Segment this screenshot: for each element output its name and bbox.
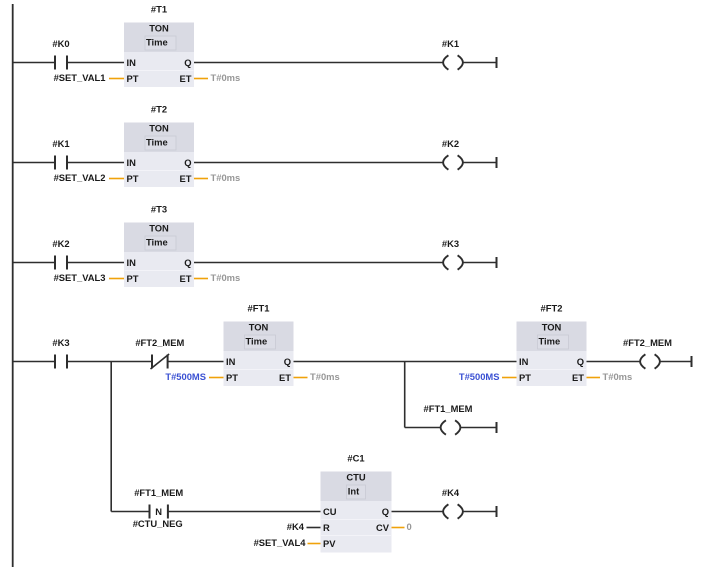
svg-text:TON: TON bbox=[542, 322, 562, 333]
svg-text:Q: Q bbox=[382, 506, 389, 517]
wire #T1.Q to coil #K1 bbox=[194, 62, 443, 64]
rung 2 end tick bbox=[496, 157, 498, 168]
branch end tick bbox=[496, 422, 498, 433]
wire #SET_VAL4 to #C1.PV bbox=[308, 543, 321, 545]
wire contact to #C1.CU bbox=[168, 511, 321, 513]
timer block #T3 (TON Time) bbox=[124, 204, 194, 288]
wire #T3.ET stub bbox=[194, 278, 208, 280]
counter block #C1 (CTU Int) bbox=[321, 453, 392, 553]
contact #FT1_MEM (N negative edge), operand #CTU_NEG bbox=[133, 487, 184, 529]
svg-text:T#500MS: T#500MS bbox=[459, 371, 500, 382]
svg-text:T#0ms: T#0ms bbox=[310, 371, 340, 382]
svg-text:PT: PT bbox=[226, 372, 238, 383]
wire rail to contact #K1 bbox=[13, 162, 55, 164]
svg-text:#K3: #K3 bbox=[52, 337, 69, 348]
wire contact #K1 to #T2 IN bbox=[67, 162, 124, 164]
contact #K1 (NO) bbox=[52, 138, 69, 169]
svg-text:R: R bbox=[323, 522, 330, 533]
svg-text:#K2: #K2 bbox=[52, 238, 69, 249]
wire #T2.Q to coil #K2 bbox=[194, 162, 443, 164]
svg-text:#C1: #C1 bbox=[347, 453, 364, 464]
coil #K1 bbox=[442, 38, 463, 69]
wire #FT2.Q to coil #FT2_MEM bbox=[587, 361, 640, 363]
svg-text:Time: Time bbox=[146, 37, 168, 48]
svg-text:IN: IN bbox=[127, 257, 137, 268]
svg-text:Time: Time bbox=[146, 237, 168, 248]
svg-text:PT: PT bbox=[127, 173, 139, 184]
rung 4 end tick bbox=[691, 356, 693, 367]
svg-text:ET: ET bbox=[180, 273, 192, 284]
wire #SET_VAL1 to #T1.PT bbox=[109, 78, 124, 80]
wire #FT1.ET stub bbox=[294, 377, 308, 379]
svg-text:#T2: #T2 bbox=[151, 104, 167, 115]
wire coil #K1 to end bbox=[464, 62, 497, 64]
wire #SET_VAL3 to #T3.PT bbox=[109, 278, 124, 280]
rung 1 end tick bbox=[496, 57, 498, 68]
coil #K4 bbox=[442, 487, 463, 519]
wire contact #K2 to #T3 IN bbox=[67, 262, 124, 264]
svg-text:PV: PV bbox=[323, 538, 336, 549]
svg-text:#K4: #K4 bbox=[287, 521, 305, 532]
svg-text:#SET_VAL2: #SET_VAL2 bbox=[54, 172, 106, 183]
wire contact #K3 to contact #FT2_MEM bbox=[67, 361, 152, 363]
wire #T2.ET stub bbox=[194, 178, 208, 180]
wire coil #FT1_MEM to end bbox=[461, 427, 497, 429]
svg-text:PT: PT bbox=[127, 273, 139, 284]
wire contact #FT2_MEM to #FT1 IN bbox=[168, 361, 224, 363]
svg-text:#FT1_MEM: #FT1_MEM bbox=[424, 403, 473, 414]
wire #T3.Q to coil #K3 bbox=[194, 262, 443, 264]
svg-text:TON: TON bbox=[249, 322, 269, 333]
wire coil #FT2_MEM to end bbox=[661, 361, 692, 363]
rung 5 end tick bbox=[496, 506, 498, 517]
contact #K3 (NO) bbox=[52, 337, 69, 368]
svg-text:T#500MS: T#500MS bbox=[165, 371, 206, 382]
svg-text:#K4: #K4 bbox=[442, 487, 460, 498]
coil #K2 bbox=[442, 138, 463, 170]
timer block #FT2 (TON Time) bbox=[517, 303, 587, 387]
svg-text:T#0ms: T#0ms bbox=[603, 371, 633, 382]
svg-text:IN: IN bbox=[226, 356, 236, 367]
svg-text:0: 0 bbox=[407, 521, 412, 532]
coil #FT2_MEM bbox=[623, 337, 672, 369]
svg-text:#K2: #K2 bbox=[442, 138, 459, 149]
wire branch corner to contact #FT1_MEM bbox=[111, 511, 149, 513]
wire #K4 to #C1.R bbox=[307, 527, 321, 529]
svg-text:PT: PT bbox=[127, 73, 139, 84]
svg-text:IN: IN bbox=[127, 57, 137, 68]
svg-text:#K1: #K1 bbox=[442, 38, 459, 49]
svg-text:Q: Q bbox=[184, 157, 191, 168]
timer block #T1 (TON Time) bbox=[124, 4, 194, 88]
svg-text:Int: Int bbox=[348, 486, 359, 497]
svg-text:Q: Q bbox=[184, 57, 191, 68]
left power rail bbox=[12, 4, 14, 567]
timer block #FT1 (TON Time) bbox=[224, 303, 294, 387]
junction: branch to #FT1_MEM coil bbox=[404, 362, 406, 428]
contact #FT2_MEM (NC) bbox=[135, 337, 184, 369]
svg-text:#SET_VAL4: #SET_VAL4 bbox=[254, 537, 307, 548]
wire coil #K3 to end bbox=[464, 262, 497, 264]
wire #C1.CV stub bbox=[392, 527, 405, 529]
svg-text:CV: CV bbox=[376, 522, 390, 533]
wire coil #K4 to end bbox=[464, 511, 497, 513]
svg-text:#FT2_MEM: #FT2_MEM bbox=[135, 337, 184, 348]
svg-text:TON: TON bbox=[149, 23, 169, 34]
coil #FT1_MEM bbox=[424, 403, 473, 435]
svg-text:CU: CU bbox=[323, 506, 337, 517]
wire branch to coil #FT1_MEM bbox=[405, 427, 440, 429]
svg-text:Q: Q bbox=[184, 257, 191, 268]
wire T#500MS to #FT1.PT bbox=[209, 377, 224, 379]
svg-text:PT: PT bbox=[519, 372, 531, 383]
svg-text:T#0ms: T#0ms bbox=[211, 72, 241, 83]
contact #K2 (NO) bbox=[52, 238, 69, 269]
svg-text:T#0ms: T#0ms bbox=[211, 272, 241, 283]
svg-text:ET: ET bbox=[180, 73, 192, 84]
svg-text:TON: TON bbox=[149, 223, 169, 234]
svg-text:Q: Q bbox=[284, 356, 291, 367]
svg-text:#FT1: #FT1 bbox=[248, 303, 270, 314]
svg-text:#K3: #K3 bbox=[442, 238, 459, 249]
svg-text:Time: Time bbox=[146, 137, 168, 148]
wire rail to contact #K0 bbox=[13, 62, 55, 64]
svg-text:#K0: #K0 bbox=[52, 38, 69, 49]
rung 3 end tick bbox=[496, 257, 498, 268]
wire #T1.ET stub bbox=[194, 78, 208, 80]
svg-text:#CTU_NEG: #CTU_NEG bbox=[133, 518, 183, 529]
svg-text:T#0ms: T#0ms bbox=[211, 172, 241, 183]
svg-text:Time: Time bbox=[246, 336, 268, 347]
svg-text:Time: Time bbox=[539, 336, 561, 347]
timer block #T2 (TON Time) bbox=[124, 104, 194, 188]
svg-text:#K1: #K1 bbox=[52, 138, 69, 149]
svg-text:ET: ET bbox=[279, 372, 291, 383]
svg-text:#T3: #T3 bbox=[151, 204, 167, 215]
wire #FT2.ET stub bbox=[587, 377, 601, 379]
svg-text:#FT2_MEM: #FT2_MEM bbox=[623, 337, 672, 348]
svg-text:#SET_VAL1: #SET_VAL1 bbox=[54, 72, 106, 83]
wire coil #K2 to end bbox=[464, 162, 497, 164]
svg-text:IN: IN bbox=[519, 356, 529, 367]
contact #K0 (NO) bbox=[52, 38, 69, 69]
wire #SET_VAL2 to #T2.PT bbox=[109, 178, 124, 180]
wire #C1.Q to coil #K4 bbox=[392, 511, 443, 513]
svg-text:TON: TON bbox=[149, 123, 169, 134]
wire contact #K0 to #T1 IN bbox=[67, 62, 124, 64]
svg-text:#SET_VAL3: #SET_VAL3 bbox=[54, 272, 106, 283]
svg-text:CTU: CTU bbox=[346, 472, 365, 483]
svg-text:ET: ET bbox=[572, 372, 584, 383]
svg-text:#T1: #T1 bbox=[151, 4, 167, 15]
junction: branch to rung 5 bbox=[110, 362, 112, 512]
svg-text:IN: IN bbox=[127, 157, 137, 168]
wire #FT1.Q to #FT2.IN bbox=[294, 361, 517, 363]
wire rail to contact #K2 bbox=[13, 262, 55, 264]
coil #K3 bbox=[442, 238, 463, 270]
svg-text:N: N bbox=[155, 506, 162, 517]
svg-text:#FT2: #FT2 bbox=[541, 303, 563, 314]
wire rail to contact #K3 bbox=[13, 361, 55, 363]
wire T#500MS to #FT2.PT bbox=[502, 377, 517, 379]
svg-text:#FT1_MEM: #FT1_MEM bbox=[134, 487, 183, 498]
svg-text:Q: Q bbox=[577, 356, 584, 367]
svg-text:ET: ET bbox=[180, 173, 192, 184]
